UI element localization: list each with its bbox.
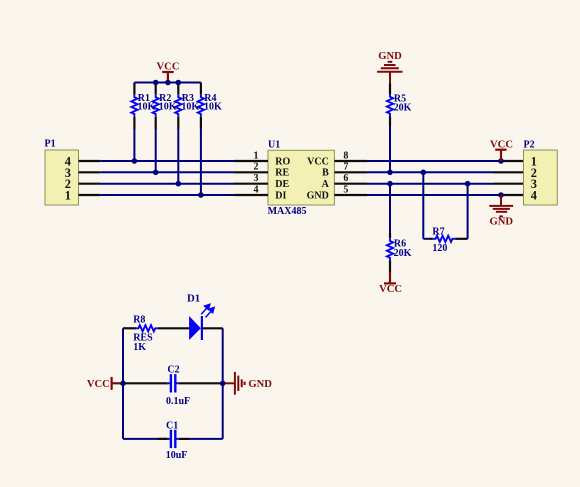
- svg-text:6: 6: [343, 173, 348, 184]
- svg-text:10uF: 10uF: [166, 450, 188, 461]
- U1 pin leads right: [334, 161, 367, 195]
- ground GND (at P2): [489, 195, 513, 216]
- VCC rail: [134, 82, 201, 84]
- resistor R3: [175, 83, 199, 184]
- svg-text:VCC: VCC: [87, 379, 110, 390]
- svg-text:A: A: [322, 179, 330, 190]
- svg-text:DE: DE: [275, 179, 289, 190]
- power VCC (at P2): [490, 140, 513, 162]
- ground GND (top of R5): [377, 62, 402, 84]
- svg-text:20K: 20K: [394, 102, 412, 113]
- svg-text:MAX485: MAX485: [268, 206, 307, 217]
- wire U1 to P2 row 4: [367, 194, 501, 196]
- svg-text:GND: GND: [307, 190, 329, 201]
- wire U1 to P2 row 3: [367, 183, 494, 185]
- svg-text:P2: P2: [524, 140, 535, 151]
- resistor R4: [198, 83, 222, 196]
- resistor R8: [123, 314, 189, 353]
- power VCC (top): [157, 62, 180, 83]
- svg-text:20K: 20K: [394, 248, 412, 259]
- wire P1 to U1 row 4: [100, 194, 234, 196]
- resistor R5: [387, 84, 412, 173]
- connector P2: [524, 140, 558, 205]
- svg-text:3: 3: [254, 173, 259, 184]
- svg-text:B: B: [322, 168, 329, 179]
- connector P1: [45, 139, 79, 205]
- resistor R7: [423, 172, 467, 254]
- wire P1 to U1 row 3: [100, 183, 234, 185]
- svg-text:R7: R7: [432, 226, 444, 237]
- IC U1 MAX485: [268, 140, 335, 217]
- power VCC (below R6): [379, 272, 402, 295]
- svg-text:1: 1: [254, 150, 259, 161]
- svg-text:GND: GND: [378, 51, 402, 62]
- svg-text:1: 1: [65, 189, 71, 203]
- power VCC (bottom block): [87, 377, 123, 390]
- wire left rail (bottom block): [122, 328, 124, 439]
- svg-text:VCC: VCC: [307, 156, 329, 167]
- svg-text:U1: U1: [268, 140, 280, 151]
- wire P1 to U1 row 2: [100, 171, 234, 173]
- svg-text:8: 8: [343, 150, 348, 161]
- wire U1 to P2 row 1: [367, 160, 501, 162]
- svg-text:120: 120: [432, 243, 447, 254]
- junction row dots left: [132, 158, 204, 198]
- wire P1 to U1 row 1: [100, 160, 234, 162]
- svg-text:10K: 10K: [204, 102, 222, 113]
- svg-text:GND: GND: [490, 217, 514, 228]
- junction rail dots: [153, 80, 181, 86]
- svg-text:RO: RO: [275, 156, 290, 167]
- wire right rail (bottom block): [222, 328, 224, 439]
- resistor R1: [131, 83, 155, 162]
- svg-text:RE: RE: [275, 168, 289, 179]
- U1 pin names: [275, 156, 329, 201]
- svg-text:0.1uF: 0.1uF: [166, 396, 190, 407]
- svg-text:7: 7: [343, 162, 348, 173]
- ground GND (bottom block): [223, 372, 245, 395]
- svg-text:D1: D1: [187, 293, 200, 305]
- wire U1 to P2 row 2: [367, 171, 494, 173]
- svg-text:4: 4: [531, 189, 537, 203]
- svg-text:GND: GND: [248, 379, 272, 390]
- svg-text:4: 4: [254, 184, 259, 195]
- svg-text:C2: C2: [167, 364, 179, 375]
- junction dots bottom block: [120, 381, 225, 387]
- capacitor C1: [123, 420, 223, 461]
- resistor R2: [153, 83, 177, 173]
- svg-text:VCC: VCC: [379, 284, 402, 295]
- junction dots right: [387, 158, 504, 198]
- P1 pin leads: [79, 161, 101, 195]
- svg-text:5: 5: [343, 184, 348, 195]
- P2 pin leads: [494, 161, 524, 195]
- svg-text:1K: 1K: [133, 342, 146, 353]
- svg-text:P1: P1: [45, 139, 56, 150]
- capacitor C2: [123, 364, 223, 407]
- svg-text:C1: C1: [166, 420, 178, 431]
- resistor R6: [387, 184, 412, 272]
- svg-text:2: 2: [254, 162, 259, 173]
- svg-text:DI: DI: [275, 190, 286, 201]
- diode D1 (LED): [187, 293, 223, 340]
- U1 pin leads left: [234, 161, 268, 195]
- U1 pin numbers: [254, 150, 349, 195]
- svg-text:R8: R8: [133, 314, 145, 325]
